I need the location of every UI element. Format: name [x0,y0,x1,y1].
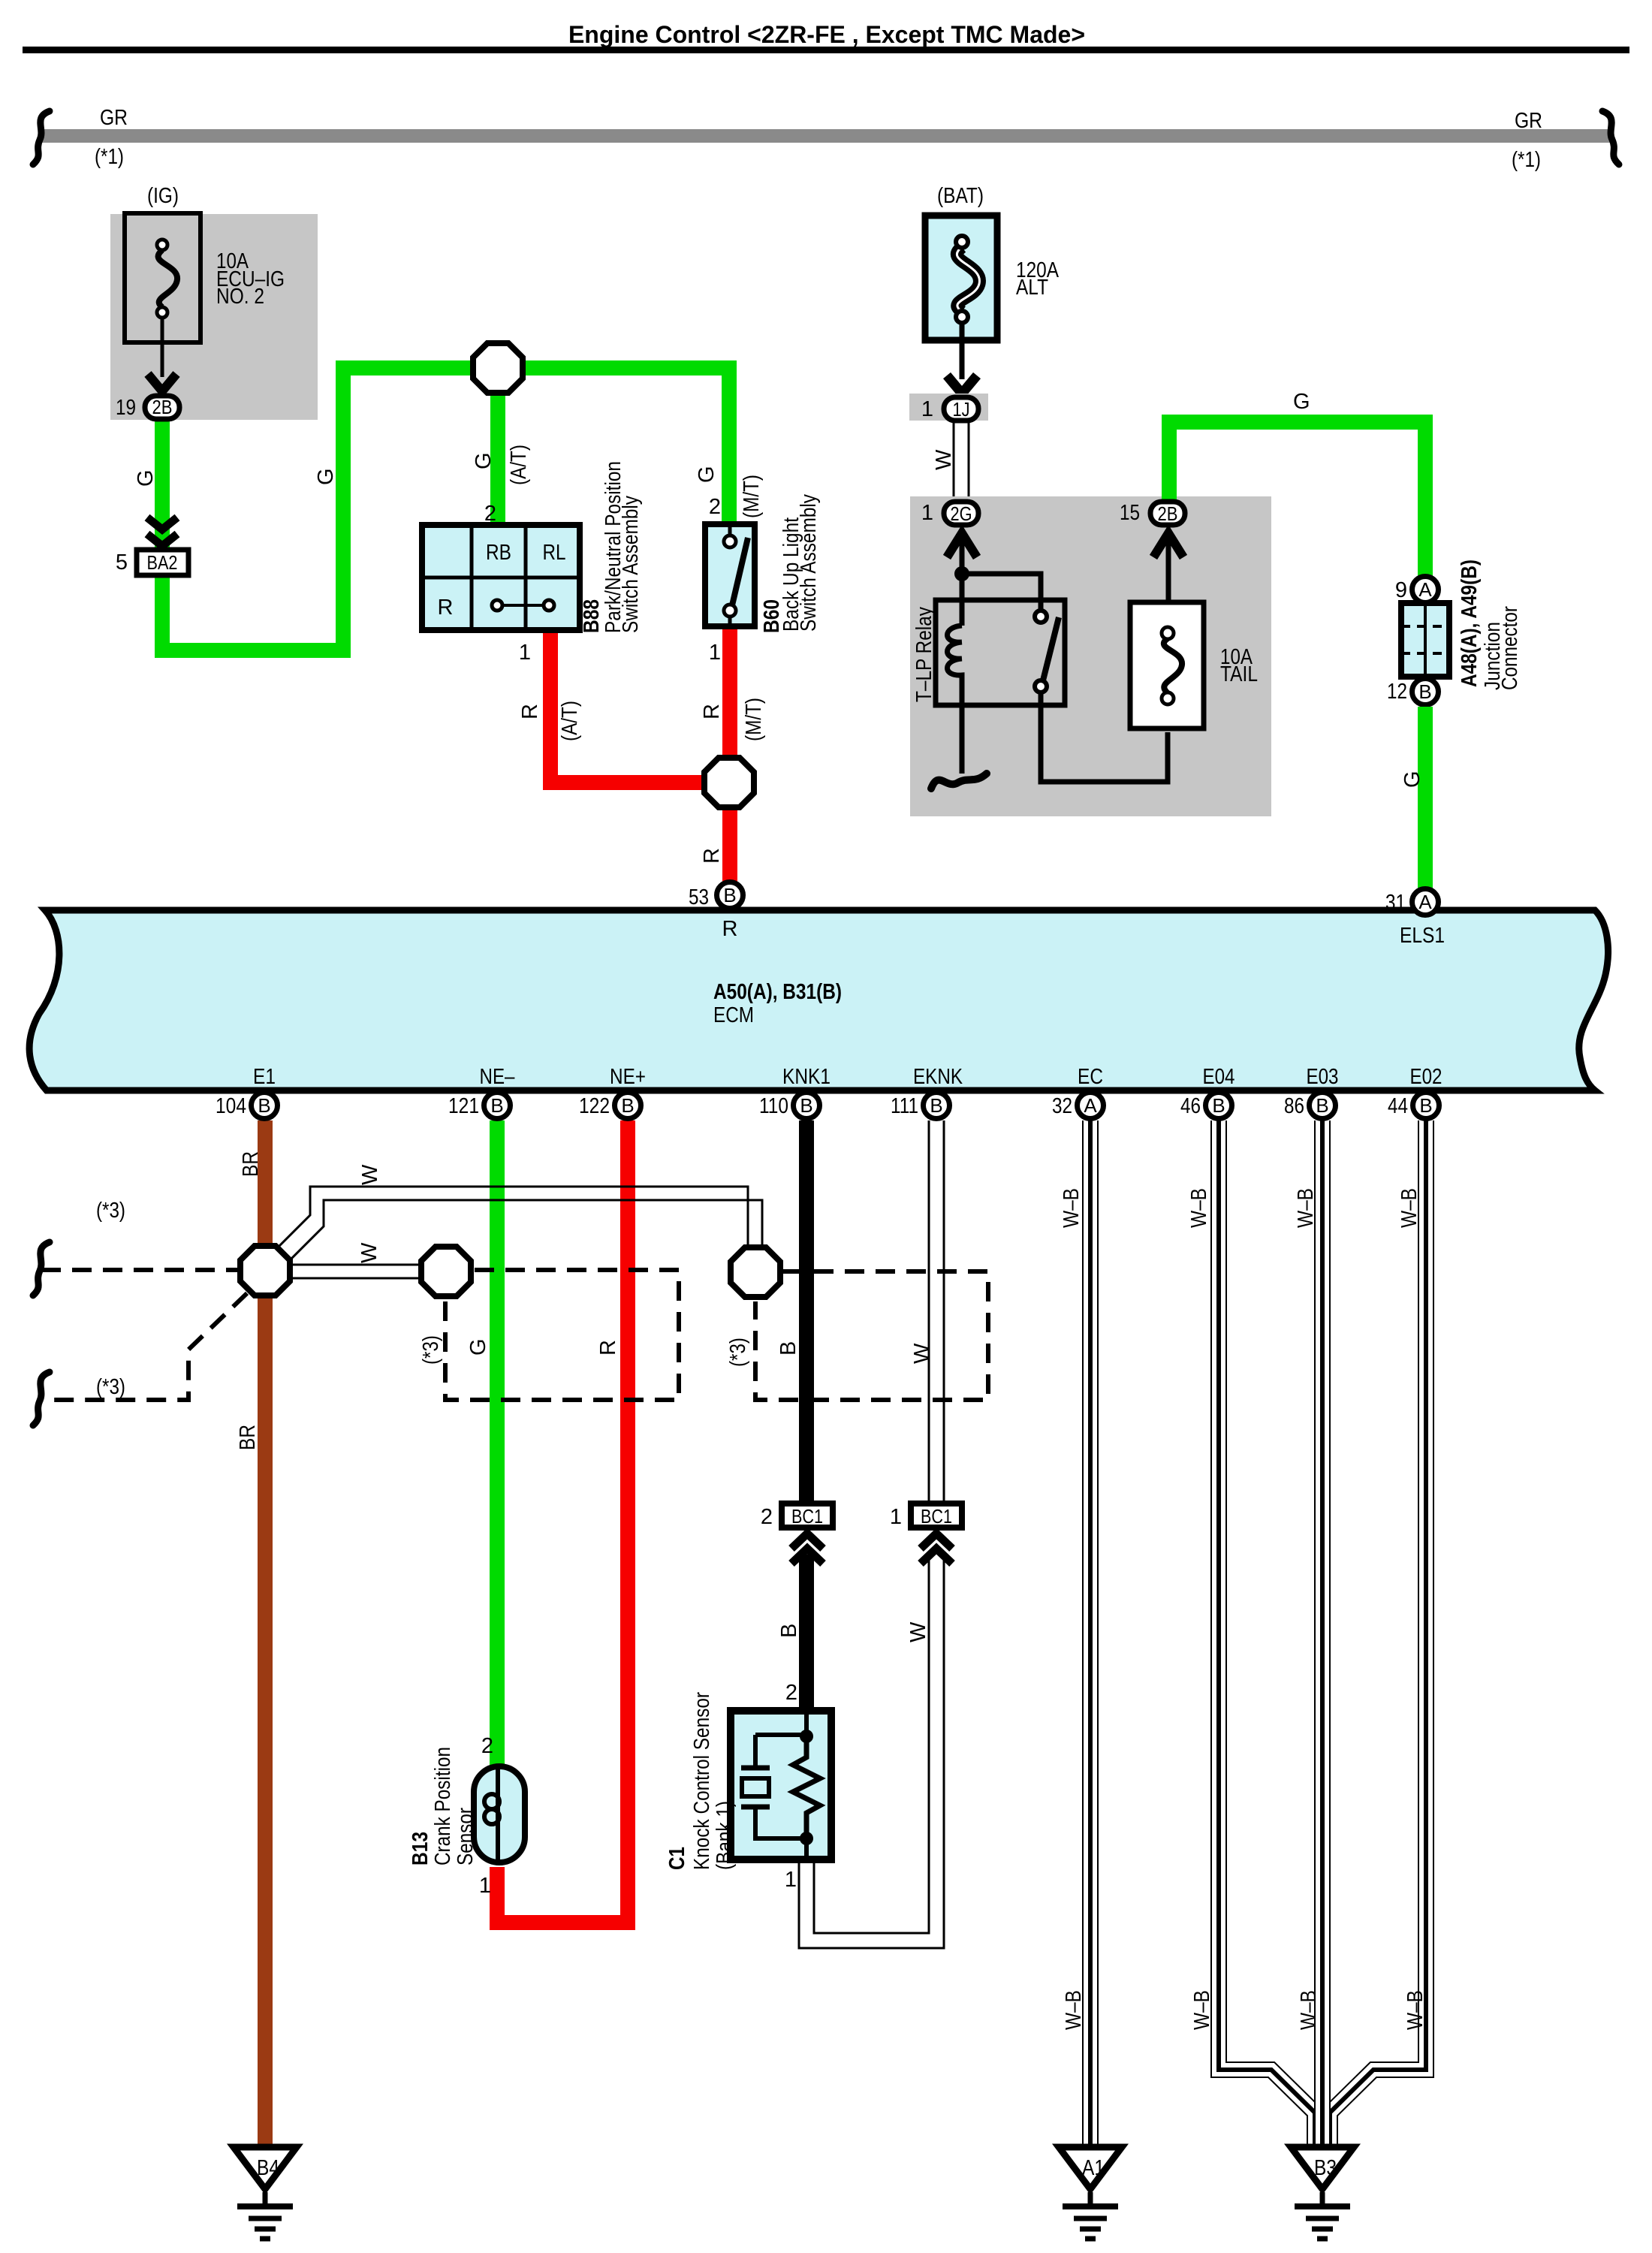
label B60 Back Up Light Switch Assembly [760,494,821,633]
svg-text:R: R [596,1340,620,1356]
ground squiggle [931,774,987,789]
fuse box 10A TAIL [1130,602,1258,728]
svg-text:Connector: Connector [1498,606,1522,690]
bus bar GR (*1) [33,106,1619,172]
svg-text:B4: B4 [257,2156,279,2180]
svg-text:W–B: W–B [1403,1990,1427,2030]
svg-text:1: 1 [890,1505,902,1529]
label B13 Crank Position Sensor [408,1747,478,1865]
svg-text:W: W [910,1343,934,1364]
svg-text:GR: GR [100,106,128,130]
relay coil [948,626,963,705]
ECM pin 111 B [891,1093,950,1119]
svg-text:44: 44 [1388,1094,1408,1118]
connector pin 9 A [1395,577,1439,603]
connector pin 15 2B [1120,501,1185,525]
wire fuse to connector 2B with arrow [148,318,176,391]
svg-text:B13: B13 [408,1832,433,1865]
arrow up into 2B [1153,533,1183,635]
junction octagon BR wire [240,1246,290,1295]
svg-text:B: B [1316,1094,1328,1117]
ECM pin 121 B [448,1093,511,1119]
double chevron arrow to BA2 [147,517,177,546]
wire contact to TAIL fuse [1041,692,1168,782]
svg-text:19: 19 [116,396,136,420]
svg-text:W–B: W–B [1060,1188,1084,1228]
svg-text:A1: A1 [1082,2156,1105,2180]
wire labels W-B upper row [1060,1188,1421,1228]
svg-text:A: A [1418,891,1432,913]
wire labels W-B lower row [1062,1990,1427,2030]
svg-text:W: W [357,1242,381,1263]
switch B60 back up light [705,521,755,629]
svg-text:31: 31 [1385,891,1406,915]
ECM pin 32 A [1052,1093,1104,1119]
svg-text:Knock Control Sensor: Knock Control Sensor [690,1692,714,1870]
svg-text:110: 110 [759,1094,788,1118]
svg-text:B: B [490,1094,503,1117]
svg-text:W–B: W–B [1062,1990,1086,2030]
svg-text:B: B [1419,1094,1432,1117]
ECM pin 53 B [689,882,743,942]
label A48(A), A49(B) Junction Connector [1458,559,1522,690]
svg-text:A50(A), B31(B): A50(A), B31(B) [713,980,842,1004]
W-B wire E03 to ground B3 [1314,1120,1331,2146]
junction connector A48/A49 [1401,603,1449,677]
wire label G (A/T) [472,445,531,485]
ECM band A50(A) B31(B) [29,910,1608,1090]
red wire A/T branch [550,633,703,783]
svg-text:G: G [472,452,496,469]
svg-text:15: 15 [1120,501,1140,525]
svg-text:GR: GR [1515,109,1542,133]
svg-text:B: B [930,1094,942,1117]
white wire W BC1 to knock sensor pin 1 [799,1555,944,1948]
wire dot to relay contact [962,574,1041,611]
dashed line (*3) left [33,1199,239,1295]
svg-text:ALT: ALT [1016,276,1048,300]
connector pin 19 2B [116,396,179,420]
svg-text:1J: 1J [953,398,970,421]
dashed line (*3) lower left [33,1293,247,1425]
dashed box knock wires [755,1271,988,1400]
svg-text:(*3): (*3) [96,1199,125,1223]
ECM bottom pin labels [253,1065,1442,1089]
svg-text:C1: C1 [665,1847,689,1870]
svg-text:R: R [438,596,454,620]
title [23,21,1629,53]
svg-text:1: 1 [785,1868,797,1892]
knock control sensor C1 [731,1711,831,1861]
svg-text:Engine Control <2ZR-FE , Excep: Engine Control <2ZR-FE , Except TMC Made… [568,21,1085,48]
double chevron under BC1 left [791,1534,823,1564]
fuse 10A ECU-IG NO.2 [125,213,285,342]
svg-text:R: R [518,704,542,719]
svg-text:E03: E03 [1307,1065,1339,1089]
svg-text:B: B [723,884,736,906]
svg-text:Crank Position: Crank Position [431,1747,455,1865]
svg-text:TAIL: TAIL [1220,662,1258,686]
svg-text:W: W [358,1164,382,1185]
svg-text:53: 53 [689,885,709,909]
label B88 Park/Neutral Position Switch Assembly [580,461,643,633]
svg-text:RB: RB [486,541,511,565]
svg-text:BC1: BC1 [921,1505,952,1528]
svg-text:2B: 2B [152,396,173,418]
svg-text:46: 46 [1180,1094,1201,1118]
svg-text:NE–: NE– [480,1065,516,1089]
fusible link 120A ALT [925,216,1060,340]
svg-text:2: 2 [785,1681,797,1705]
brown wire E1 to ground B4 [258,1120,273,2146]
green wire NE- to crank sensor [490,1120,505,1766]
svg-text:B: B [800,1094,812,1117]
svg-text:(*1): (*1) [1512,148,1541,172]
crank position sensor B13 [474,1766,525,1862]
svg-text:NE+: NE+ [610,1065,646,1089]
connector 5 BA2 [116,550,188,575]
ECM pin 104 B [216,1093,278,1119]
black wire B BC1 to knock sensor [799,1555,814,1712]
junction octagon green [473,343,523,393]
svg-text:(*3): (*3) [96,1375,125,1399]
svg-text:1: 1 [921,501,933,525]
svg-text:A: A [1084,1094,1097,1117]
wire label G (M/T) [695,466,764,518]
ground B3 [1291,2147,1354,2239]
svg-text:1: 1 [709,641,721,665]
svg-text:(*1): (*1) [95,145,124,169]
svg-text:1: 1 [479,1874,491,1898]
switch B88 park/neutral position [419,522,583,633]
svg-text:(A/T): (A/T) [558,701,582,741]
svg-text:1: 1 [921,397,933,421]
black wire KNK1 to BC1 [799,1120,814,1502]
svg-text:Switch Assembly: Switch Assembly [797,494,821,632]
svg-text:(*3): (*3) [726,1338,750,1367]
wire dot into relay coil [960,574,965,626]
svg-text:W–B: W–B [1397,1188,1421,1228]
wire label R (A/T) [518,701,582,741]
svg-text:R: R [700,848,724,864]
white wire W octagon1 to octagon2 [289,1265,422,1278]
svg-text:B: B [258,1094,270,1117]
relay box T-LP [936,600,1065,705]
svg-text:104: 104 [216,1094,246,1118]
svg-text:ELS1: ELS1 [1400,924,1445,948]
W-B wire EC to ground A1 [1082,1120,1099,2146]
svg-text:(M/T): (M/T) [740,475,764,518]
svg-text:G: G [314,468,338,485]
svg-text:A48(A), A49(B): A48(A), A49(B) [1458,559,1482,687]
green wire B to ECM pin 31 [1418,707,1433,890]
svg-text:B: B [1212,1094,1225,1117]
ECM pin 122 B [579,1093,641,1119]
white wire W octagon1 to octagon3 [264,1187,762,1274]
svg-text:2: 2 [481,1734,493,1758]
ECM pin 31 A [1385,889,1445,949]
svg-text:G: G [1400,771,1424,788]
svg-text:(Bank 1): (Bank 1) [713,1801,737,1870]
wire coil to ground squiggle [960,705,965,774]
dashed box NE wires [445,1270,679,1400]
svg-text:R: R [700,704,724,719]
wire label R (M/T) [700,698,766,741]
gray panel relay block [910,496,1271,816]
relay contacts [1035,611,1059,692]
ground B4 [234,2147,297,2239]
svg-text:2: 2 [761,1505,773,1529]
svg-text:B: B [1418,680,1431,703]
svg-text:KNK1: KNK1 [782,1065,831,1089]
gray band 1J [909,394,988,421]
green wire G from 2B via BA2 loop to switches [162,360,729,650]
svg-text:(M/T): (M/T) [742,698,766,741]
svg-text:G: G [466,1338,490,1356]
svg-text:W–B: W–B [1190,1990,1214,2030]
svg-text:32: 32 [1052,1094,1072,1118]
svg-text:2G: 2G [951,502,972,525]
svg-text:BR: BR [236,1425,260,1450]
svg-text:2B: 2B [1158,502,1178,525]
white wire W 1J to 2G [954,419,969,502]
svg-text:111: 111 [891,1094,918,1118]
connector pin 1 1J [921,397,978,421]
svg-text:(BAT): (BAT) [937,184,984,208]
junction dot [954,566,969,581]
connector pin 12 B [1387,679,1439,705]
W-B wire E04 to ground B3 [1219,1120,1315,2146]
ECM pin 86 B [1284,1093,1336,1119]
svg-text:G: G [1293,390,1310,414]
svg-text:W: W [906,1621,930,1642]
svg-text:G: G [695,466,719,483]
svg-text:E04: E04 [1203,1065,1235,1089]
svg-text:B88: B88 [580,599,604,633]
connector 1 BC1 [890,1504,962,1529]
svg-text:Switch Assembly: Switch Assembly [619,496,643,633]
svg-text:W–B: W–B [1187,1188,1211,1228]
svg-text:B: B [776,1341,800,1356]
svg-text:12: 12 [1387,680,1407,704]
ECM pin 46 B [1180,1093,1232,1119]
svg-text:BC1: BC1 [791,1505,823,1528]
svg-text:EKNK: EKNK [913,1065,963,1089]
W-B wire E02 to ground B3 [1330,1120,1426,2146]
label C1 Knock Control Sensor (Bank 1) [665,1692,737,1870]
svg-text:W–B: W–B [1297,1990,1321,2030]
svg-text:E1: E1 [253,1065,276,1089]
double chevron under BC1 right [921,1534,952,1564]
gray panel IG fuse block [110,214,318,420]
red wire M/T to ECM pin 53 [722,629,737,882]
svg-text:122: 122 [579,1094,610,1118]
svg-text:1: 1 [519,641,531,665]
white wire EKNK to BC1 [929,1120,944,1502]
junction octagon 3 [731,1247,780,1297]
green wire 2B to junction connector A [1169,422,1425,578]
ECM pin 44 B [1388,1093,1439,1119]
arrow up into 2G [947,533,977,574]
svg-text:(A/T): (A/T) [507,445,531,485]
svg-text:B: B [777,1624,801,1638]
svg-text:R: R [722,917,738,941]
svg-text:5: 5 [116,550,128,575]
svg-text:W–B: W–B [1294,1188,1318,1228]
svg-text:ECM: ECM [713,1003,754,1027]
svg-text:T–LP Relay: T–LP Relay [912,607,936,702]
svg-text:B: B [621,1094,634,1117]
svg-text:Sensor: Sensor [454,1808,478,1865]
svg-text:(*3): (*3) [419,1335,443,1365]
svg-text:E02: E02 [1410,1065,1442,1089]
junction octagon 2 [421,1247,471,1296]
svg-text:BR: BR [239,1151,263,1177]
svg-text:121: 121 [448,1094,479,1118]
svg-text:A: A [1418,578,1432,601]
svg-text:G: G [134,469,158,487]
svg-text:B3: B3 [1314,2156,1337,2180]
ECM pin 110 B [759,1093,820,1119]
svg-text:NO. 2: NO. 2 [216,285,264,309]
ground A1 [1059,2147,1122,2239]
svg-text:86: 86 [1284,1094,1304,1118]
svg-text:2: 2 [709,495,721,519]
svg-text:EC: EC [1078,1065,1103,1089]
connector 2 BC1 [761,1504,833,1529]
connector pin 1 2G [921,501,978,525]
svg-text:RL: RL [543,541,566,565]
svg-text:(IG): (IG) [147,184,179,208]
svg-text:BA2: BA2 [147,551,178,574]
svg-text:W: W [932,449,956,470]
red wire NE+ to crank sensor pin 1 [497,1120,628,1923]
wire ALT to 1J with arrow [947,323,977,394]
svg-text:9: 9 [1395,578,1407,602]
junction octagon red [704,758,754,807]
